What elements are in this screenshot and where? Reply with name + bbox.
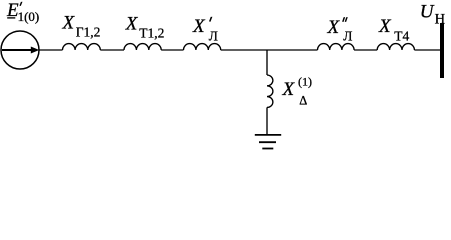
svg-text:Т1,2: Т1,2 bbox=[139, 26, 164, 41]
inductor XΔ(1) (shunt branch) bbox=[267, 75, 273, 107]
svg-text:X: X bbox=[125, 14, 139, 35]
svg-text:Н: Н bbox=[435, 11, 446, 27]
wire from XГ1,2 to XТ1,2 bbox=[100, 49, 124, 51]
bus bar Uн bbox=[440, 23, 444, 78]
inductor XГ1,2 bbox=[63, 44, 101, 50]
inductor X''Л bbox=[318, 44, 355, 50]
svg-text:X: X bbox=[378, 16, 392, 37]
label Uн bbox=[420, 1, 446, 27]
label E'1(0) bbox=[6, 0, 39, 24]
svg-text:Л: Л bbox=[343, 29, 352, 44]
inductor XТ4 bbox=[377, 44, 414, 50]
svg-text:Т4: Т4 bbox=[394, 28, 409, 43]
wire from XТ1,2 to X'Л bbox=[161, 49, 183, 51]
wire from X'Л through node to X''Л bbox=[221, 49, 318, 51]
svg-text:1(0): 1(0) bbox=[18, 9, 40, 24]
svg-text:Л: Л bbox=[209, 28, 218, 43]
label XТ1,2 bbox=[125, 14, 165, 41]
svg-text:X: X bbox=[62, 13, 76, 34]
source E1 (equivalent generator EMF source) bbox=[1, 31, 39, 69]
wire from X''Л to XТ4 bbox=[354, 49, 377, 51]
wire from XТ4 to load bus bbox=[414, 49, 440, 51]
label XТ4 bbox=[378, 16, 410, 44]
svg-text:X: X bbox=[282, 79, 296, 100]
wire from source to XГ1,2 bbox=[39, 49, 63, 51]
svg-text:U: U bbox=[420, 1, 435, 22]
inductor XТ1,2 bbox=[124, 44, 161, 50]
label X'Л bbox=[192, 16, 218, 43]
label XΔ(1) bbox=[282, 75, 313, 108]
wire from node down to XΔ bbox=[266, 50, 268, 75]
inductor X'Л bbox=[184, 44, 221, 50]
svg-text:Г1,2: Г1,2 bbox=[76, 25, 101, 40]
ground bbox=[255, 135, 281, 149]
label XГ1,2 bbox=[62, 13, 101, 40]
svg-text:X: X bbox=[327, 17, 341, 38]
svg-text:(1): (1) bbox=[298, 75, 312, 89]
svg-text:X: X bbox=[192, 16, 206, 37]
label X''Л bbox=[327, 17, 353, 44]
svg-text:Δ: Δ bbox=[299, 93, 307, 107]
wire from XΔ to ground bbox=[266, 107, 268, 134]
